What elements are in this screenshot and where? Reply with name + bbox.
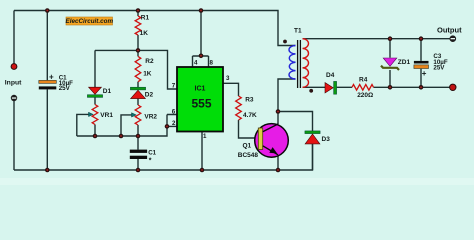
capacitor C2 (C1*) timing — [130, 150, 147, 153]
svg-text:ZD1: ZD1 — [398, 59, 411, 66]
output minus terminal — [450, 35, 457, 42]
svg-text:Output: Output — [437, 26, 462, 35]
junction node — [419, 85, 424, 90]
wire C3 branch — [420, 39, 422, 88]
wire pots common node to pins 2 and 6 — [77, 115, 177, 171]
junction node — [136, 168, 141, 173]
junction node — [199, 8, 204, 13]
wire 555 pin1 to ground — [201, 132, 203, 171]
svg-text:R1: R1 — [141, 14, 150, 21]
svg-text:IC1: IC1 — [195, 86, 206, 93]
svg-text:Input: Input — [5, 79, 22, 86]
svg-text:+: + — [422, 69, 427, 78]
wire 555 pins 4 8 bridge and supply feed — [193, 11, 209, 68]
wire input plus drop — [13, 11, 15, 64]
ElecCircuit.com badge — [66, 17, 113, 25]
junction node — [165, 124, 170, 129]
capacitor C3 10uF 25V — [414, 61, 429, 64]
wire ZD1 branch — [389, 39, 391, 88]
junction node — [45, 168, 50, 173]
junction node — [136, 48, 141, 53]
input minus terminal — [11, 95, 17, 101]
junction node — [388, 85, 393, 90]
svg-text:D3: D3 — [322, 136, 331, 143]
junction node — [136, 8, 141, 13]
phase dot secondary — [309, 89, 313, 93]
svg-text:*: * — [149, 158, 152, 165]
svg-text:+: + — [49, 72, 54, 81]
diode D3 — [305, 131, 320, 134]
svg-text:ElecCircuit.com: ElecCircuit.com — [66, 18, 114, 25]
diode D1 — [89, 87, 102, 94]
junction node — [45, 8, 50, 13]
svg-text:7: 7 — [172, 83, 176, 90]
wire R1 R2 column — [137, 11, 139, 137]
junction node — [200, 168, 205, 173]
svg-text:1: 1 — [203, 133, 207, 140]
junction node — [276, 109, 281, 114]
svg-text:2: 2 — [172, 120, 176, 127]
trimmer VR1 — [92, 105, 98, 125]
wire input minus drop — [13, 101, 15, 170]
resistor R1 — [135, 16, 141, 35]
wire bottom ground rail — [14, 144, 313, 170]
wire VR2 wiper link — [121, 115, 133, 136]
junction node — [276, 168, 281, 173]
wire C1 branch — [46, 11, 48, 171]
resistor R4 220 ohm — [352, 85, 374, 91]
svg-text:25V: 25V — [59, 85, 71, 92]
phase dot primary — [283, 40, 287, 44]
svg-text:R4: R4 — [359, 77, 368, 84]
svg-text:D1: D1 — [103, 88, 112, 95]
svg-text:D4: D4 — [326, 72, 335, 79]
svg-text:R3: R3 — [245, 97, 254, 104]
wire secondary top rail to output — [303, 38, 450, 40]
wire D3 clamp branch — [278, 112, 313, 171]
trimmer VR2 — [135, 105, 141, 125]
svg-text:25V: 25V — [433, 65, 445, 72]
wire top supply rail — [14, 11, 296, 46]
junction node — [388, 36, 393, 41]
svg-text:VR2: VR2 — [144, 114, 157, 121]
svg-text:4.7K: 4.7K — [243, 112, 257, 119]
wire D1 VR1 column — [94, 50, 96, 136]
wire secondary bottom rail segments — [303, 86, 450, 88]
resistor R2 — [135, 56, 141, 81]
transistor Q1 BC548 — [255, 124, 289, 158]
svg-text:3: 3 — [226, 75, 230, 82]
transformer T1 primary — [289, 46, 296, 80]
svg-text:4: 4 — [194, 60, 198, 67]
svg-text:Q1: Q1 — [243, 143, 252, 150]
diode D2 — [130, 87, 145, 90]
svg-text:BC548: BC548 — [238, 152, 259, 159]
svg-text:D2: D2 — [145, 92, 154, 99]
svg-text:1K: 1K — [140, 30, 149, 37]
svg-text:C1: C1 — [148, 150, 156, 157]
resistor R3 4.7K — [236, 96, 242, 120]
junction node — [419, 36, 424, 41]
svg-text:220Ω: 220Ω — [357, 92, 373, 99]
transformer T1 secondary — [303, 39, 309, 88]
junction node — [119, 134, 124, 139]
wire pin3 to R3 to Q1 base — [223, 83, 258, 138]
svg-text:VR1: VR1 — [100, 112, 113, 119]
svg-text:R2: R2 — [145, 58, 154, 65]
junction node — [93, 134, 98, 139]
svg-text:T1: T1 — [294, 28, 302, 35]
svg-text:1K: 1K — [143, 71, 152, 78]
input plus terminal — [11, 64, 17, 70]
wire node pin7 to R1R2 junction and D1 — [95, 50, 177, 89]
transformer core — [298, 40, 301, 88]
zener ZD1 — [383, 58, 397, 66]
junction node — [199, 54, 204, 59]
wire Q1 emitter to ground — [277, 155, 279, 171]
wire VR1 wiper link — [77, 114, 90, 136]
wire Q1 collector to transformer primary — [278, 79, 296, 124]
junction node — [136, 134, 141, 139]
output plus terminal — [450, 84, 456, 90]
op-amp timer IC1 555 — [177, 67, 223, 132]
capacitor C1 10uF 25V — [39, 80, 57, 83]
diode D4 — [325, 83, 333, 93]
svg-text:555: 555 — [191, 96, 211, 110]
svg-text:8: 8 — [210, 60, 214, 67]
svg-text:6: 6 — [172, 109, 176, 116]
